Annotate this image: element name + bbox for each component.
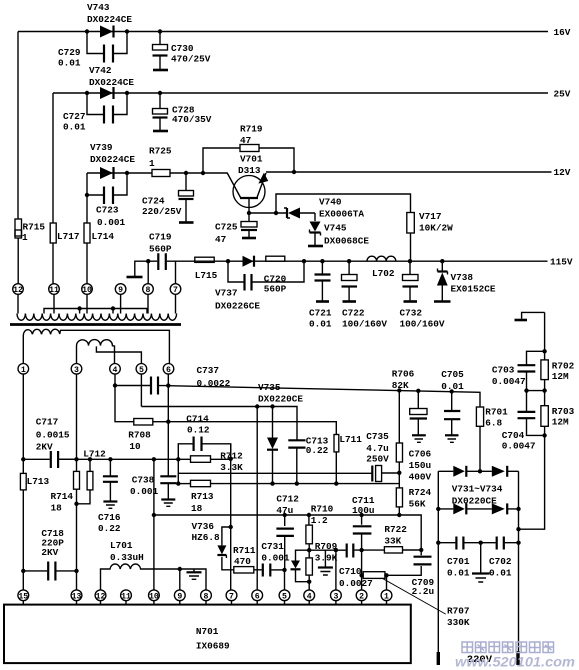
resistor R714: [51, 471, 80, 513]
wire main feed J: [168, 386, 480, 407]
resistor V717 10K/2W: [276, 194, 453, 261]
wire pin7 riser: [230, 444, 232, 590]
diode V743 DX0224CE: [87, 2, 132, 38]
svg-text:R702: R702: [552, 361, 575, 372]
capacitor C730: [153, 32, 211, 71]
diode V731: [453, 466, 466, 477]
ground on wire I: [318, 550, 333, 575]
svg-text:3: 3: [74, 366, 79, 375]
node bridge-out: [478, 469, 482, 473]
resistor R711: [231, 545, 262, 573]
wire pin1-IC riser: [386, 575, 388, 590]
inductor L715: [195, 257, 218, 281]
svg-text:C703: C703: [492, 365, 515, 376]
svg-text:470/25V: 470/25V: [171, 54, 211, 65]
svg-text:C737: C737: [197, 365, 220, 376]
svg-text:C712: C712: [276, 494, 299, 505]
transistor V701 D313: [227, 154, 269, 214]
zener V745 DX0068CE: [308, 213, 369, 247]
resistor R725: [149, 146, 172, 177]
svg-text:0.01: 0.01: [309, 319, 332, 330]
svg-text:1: 1: [22, 232, 28, 243]
resistor R715: [15, 219, 45, 284]
svg-text:C717: C717: [36, 417, 59, 428]
svg-text:L711: L711: [339, 434, 362, 445]
wire F to R712 node: [152, 457, 156, 461]
node C720-right: [302, 259, 306, 263]
capacitor C704: [502, 391, 547, 452]
wire left rail x18: [17, 32, 19, 220]
svg-text:R724: R724: [409, 487, 432, 498]
svg-text:C738: C738: [132, 475, 155, 486]
resistor R712: [191, 451, 244, 474]
diode V737 DX0226CE: [215, 256, 260, 312]
node C732 V717: [408, 259, 412, 263]
capacitor C732: [400, 261, 445, 329]
svg-text:R715: R715: [23, 222, 46, 233]
svg-text:9: 9: [177, 592, 182, 601]
inductor L701: [101, 540, 207, 590]
node C711-bottom: [359, 548, 363, 552]
svg-text:R706: R706: [392, 369, 415, 380]
IC N701 IX0689: [4, 605, 411, 664]
node C735-right: [397, 471, 401, 475]
svg-text:0.0015: 0.0015: [36, 430, 70, 441]
wires pins to primary winding: [18, 294, 176, 313]
node pin6-R708: [166, 420, 170, 424]
svg-text:100/160V: 100/160V: [400, 319, 445, 330]
capacitor C719: [148, 232, 175, 271]
svg-text:47: 47: [240, 135, 251, 146]
node V738: [440, 259, 444, 263]
node junction V739-right: [125, 171, 129, 175]
svg-text:R713: R713: [191, 491, 214, 502]
svg-text:DX0226CE: DX0226CE: [215, 301, 260, 312]
svg-text:330K: 330K: [447, 617, 470, 628]
svg-text:1.2: 1.2: [311, 515, 328, 526]
wire I row: [309, 549, 421, 551]
svg-text:560P: 560P: [149, 244, 172, 255]
wire pin3-IC riser: [335, 550, 337, 590]
node junction 25V-right: [125, 91, 129, 95]
svg-text:C710: C710: [339, 566, 362, 577]
capacitor C716: [98, 457, 121, 534]
IC pin 15: [18, 590, 29, 605]
node R702-top: [542, 349, 546, 353]
svg-text:12M: 12M: [552, 417, 569, 428]
wire bridge top row: [438, 470, 518, 472]
resistor R708: [128, 419, 168, 453]
svg-text:470/35V: 470/35V: [172, 114, 212, 125]
ground hot-bar left of C719: [127, 261, 149, 277]
capacitor C728: [153, 93, 212, 131]
IC pin 2: [356, 590, 367, 605]
svg-text:C725: C725: [215, 222, 238, 233]
wire right rail: [519, 312, 545, 529]
svg-text:C702: C702: [489, 556, 512, 567]
svg-text:56K: 56K: [409, 499, 426, 510]
IC pin 4: [304, 590, 315, 605]
svg-text:R708: R708: [128, 430, 151, 441]
capacitor C717: [23, 417, 76, 469]
link box after V737: [266, 256, 285, 261]
node C721: [320, 259, 324, 263]
svg-text:C719: C719: [149, 232, 172, 243]
svg-text:4.7u: 4.7u: [366, 443, 389, 454]
pin 7: [170, 284, 181, 295]
IC pin 10: [149, 590, 160, 605]
svg-text:100/160V: 100/160V: [342, 319, 387, 330]
svg-text:1: 1: [149, 158, 155, 169]
svg-text:www.520101.com: www.520101.com: [455, 654, 575, 670]
node R712-right: [229, 457, 233, 461]
svg-text:C704: C704: [502, 430, 525, 441]
capacitor C735: [366, 431, 399, 482]
svg-text:0.0047: 0.0047: [502, 441, 536, 452]
wire pin9 stub: [179, 569, 181, 590]
wire 25V rail: [53, 89, 571, 100]
capacitor C705: [441, 369, 464, 442]
svg-text:2.2u: 2.2u: [412, 586, 435, 597]
svg-text:8: 8: [146, 286, 151, 295]
node divider mid: [524, 388, 547, 392]
diode V735: [267, 407, 278, 484]
primary tap jumper: [44, 306, 147, 313]
resistor R702: [541, 360, 575, 382]
pin 5: [136, 364, 147, 376]
node emitter-rail: [292, 170, 296, 174]
resistor R713: [176, 480, 214, 514]
zener V738 EX0152CE: [434, 261, 496, 301]
inductor L712: [77, 449, 107, 504]
node C737-left: [113, 383, 117, 387]
svg-text:16V: 16V: [554, 27, 571, 38]
wire pin1 rail: [22, 374, 24, 590]
svg-text:L712: L712: [83, 449, 106, 460]
capacitor C712: [276, 494, 299, 570]
svg-text:IX0689: IX0689: [196, 641, 230, 652]
capacitor C702: [481, 537, 519, 579]
svg-text:0.001: 0.001: [261, 553, 290, 564]
leader to R707 label: [383, 579, 470, 628]
wire B to L711: [168, 422, 336, 435]
wire bridge right leg: [516, 471, 520, 665]
svg-text:10: 10: [149, 592, 159, 601]
svg-text:115V: 115V: [550, 257, 573, 268]
svg-text:L715: L715: [195, 270, 218, 281]
node C737-right: [166, 383, 170, 387]
inductor L702: [367, 256, 396, 279]
svg-text:C714: C714: [186, 414, 209, 425]
svg-text:150u: 150u: [409, 460, 432, 471]
node C722: [347, 259, 351, 263]
svg-text:2KV: 2KV: [36, 442, 53, 453]
svg-text:R710: R710: [311, 504, 334, 515]
svg-text:12: 12: [96, 592, 106, 601]
svg-text:0.001: 0.001: [97, 217, 126, 228]
svg-text:R701: R701: [485, 407, 508, 418]
node wireF-pin1: [21, 457, 25, 461]
wire pin2-IC riser: [361, 550, 363, 590]
inductor L717: [50, 223, 79, 284]
capacitor C722: [342, 261, 388, 329]
svg-text:560P: 560P: [264, 284, 287, 295]
svg-text:V740: V740: [319, 197, 342, 208]
diode V742 DX0224CE: [89, 65, 134, 99]
resistor R710: [306, 504, 334, 551]
node C724-top: [184, 171, 188, 175]
node wireF-pin3: [74, 457, 78, 461]
pin 3: [71, 364, 82, 376]
svg-text:C727: C727: [63, 111, 86, 122]
svg-text:V738: V738: [451, 272, 474, 283]
node C728: [158, 91, 162, 95]
svg-text:V701: V701: [240, 154, 263, 165]
node pin3-IC: [334, 548, 338, 552]
wire bridge left leg: [436, 471, 440, 665]
wire V739 row: [87, 172, 152, 174]
svg-text:250V: 250V: [366, 454, 389, 465]
IC pin 11: [121, 590, 132, 605]
wire 12V rail right: [266, 167, 571, 178]
capacitor C731: [261, 541, 290, 577]
svg-text:9: 9: [118, 286, 123, 295]
capacitor C714: [178, 414, 230, 460]
svg-text:10: 10: [82, 286, 92, 295]
IC pin 1: [381, 590, 392, 605]
node V717-branch: [274, 211, 278, 215]
pin 4: [110, 364, 121, 376]
svg-text:C729: C729: [58, 47, 81, 58]
diode V733: [453, 503, 466, 514]
svg-text:25V: 25V: [554, 89, 571, 100]
IC pin 9: [174, 590, 185, 605]
wire D row: [152, 513, 422, 550]
capacitor C713: [288, 436, 328, 484]
resistor R701: [476, 407, 508, 472]
pin 10: [82, 284, 93, 295]
svg-text:DX0220CE: DX0220CE: [452, 496, 497, 507]
node C719-left: [146, 259, 150, 263]
pin 12: [13, 284, 24, 295]
svg-text:7: 7: [173, 286, 178, 295]
svg-text:R725: R725: [149, 146, 172, 157]
svg-text:82K: 82K: [392, 380, 409, 391]
pin 8: [143, 284, 154, 295]
capacitor C724: [142, 173, 194, 223]
IC pin 5: [279, 590, 290, 605]
IC pin 7: [226, 590, 237, 605]
wire pin6 down: [167, 374, 169, 422]
capacitor C709: [387, 550, 435, 597]
ground near pin9: [187, 569, 202, 579]
svg-text:5: 5: [139, 366, 144, 375]
node R710-R709: [307, 548, 311, 552]
svg-text:100u: 100u: [352, 505, 375, 516]
resistor R706: [392, 369, 415, 473]
svg-text:0.01: 0.01: [63, 122, 86, 133]
wire rect-row A: [141, 382, 303, 440]
svg-text:18: 18: [51, 503, 63, 514]
svg-text:V745: V745: [324, 223, 347, 234]
svg-text:0.33uH: 0.33uH: [110, 552, 144, 563]
pin 11: [49, 284, 60, 295]
svg-text:C730: C730: [171, 43, 194, 54]
svg-text:L701: L701: [110, 540, 133, 551]
svg-text:3: 3: [333, 592, 338, 601]
node R722-right: [419, 548, 423, 552]
svg-text:0.12: 0.12: [187, 425, 210, 436]
wire pin3 rail: [76, 374, 78, 590]
svg-text:47: 47: [215, 234, 226, 245]
svg-text:0.0047: 0.0047: [492, 376, 526, 387]
resistor R719: [203, 124, 294, 174]
svg-text:2KV: 2KV: [41, 547, 58, 558]
pin 6: [163, 364, 174, 376]
wire left rail x53: [52, 93, 54, 223]
svg-text:C735: C735: [366, 431, 389, 442]
wire 12V row left: [170, 172, 227, 174]
svg-text:6: 6: [255, 592, 260, 601]
node C730: [158, 29, 162, 33]
svg-text:V736: V736: [192, 521, 215, 532]
svg-text:R722: R722: [384, 524, 407, 535]
svg-text:11: 11: [49, 286, 59, 295]
svg-text:6.8: 6.8: [485, 418, 502, 429]
diode V740 EX0006TA: [284, 197, 364, 220]
svg-text:15: 15: [18, 592, 28, 601]
capacitor C729: [58, 32, 127, 69]
capacitor C718: [21, 528, 79, 581]
svg-text:R719: R719: [240, 124, 263, 135]
svg-text:0.01: 0.01: [489, 568, 512, 579]
svg-text:DX0220CE: DX0220CE: [258, 394, 303, 405]
svg-text:47u: 47u: [276, 505, 293, 516]
pin 9: [115, 284, 126, 295]
diode V739 DX0224CE: [90, 142, 135, 179]
wire F row: [58, 458, 231, 460]
svg-text:C723: C723: [96, 205, 119, 216]
wire bridge mid row: [436, 507, 521, 511]
resistor R707: [359, 572, 388, 579]
svg-text:L702: L702: [372, 268, 395, 279]
svg-text:C706: C706: [409, 449, 432, 460]
capacitor C701: [438, 537, 480, 579]
wire 16V rail: [18, 27, 571, 38]
node mains-ground: [479, 541, 483, 545]
resistor R703: [541, 406, 575, 428]
svg-text:R707: R707: [447, 606, 470, 617]
node R719-left: [201, 171, 205, 175]
wire pin6-IC riser: [256, 407, 258, 590]
node junction 16V-left: [85, 29, 89, 33]
node junction 25V-left: [85, 91, 89, 95]
svg-text:DX0224CE: DX0224CE: [87, 14, 132, 25]
capacitor C725: [215, 213, 257, 245]
svg-text:4: 4: [307, 592, 312, 601]
svg-text:V737: V737: [215, 288, 238, 299]
capacitor C703: [492, 351, 545, 390]
svg-text:C705: C705: [441, 369, 464, 380]
svg-text:400V: 400V: [409, 472, 432, 483]
capacitor C706: [409, 391, 432, 483]
primary winding: [17, 314, 177, 321]
svg-text:13: 13: [72, 592, 82, 601]
IC pin 8: [201, 590, 212, 605]
wire pin4 down: [115, 374, 134, 422]
node wireG-pin5: [282, 568, 286, 572]
node pin9-gnd: [178, 567, 182, 571]
svg-text:N701: N701: [196, 626, 219, 637]
svg-text:1: 1: [21, 366, 26, 375]
svg-text:10: 10: [129, 441, 141, 452]
zener V736 HZ6.8: [192, 521, 233, 570]
node R712-left: [176, 457, 180, 461]
wire pin5-IC stub: [284, 570, 286, 590]
svg-text:8: 8: [204, 592, 209, 601]
svg-text:0.01: 0.01: [447, 568, 470, 579]
svg-text:12M: 12M: [552, 371, 569, 382]
capacitor C723: [87, 173, 127, 228]
svg-text:12V: 12V: [554, 167, 571, 178]
svg-text:18: 18: [191, 503, 203, 514]
svg-text:5: 5: [282, 592, 287, 601]
svg-text:C716: C716: [98, 512, 121, 523]
svg-text:0.22: 0.22: [98, 523, 121, 534]
svg-text:0.01: 0.01: [58, 58, 81, 69]
svg-text:DX0068CE: DX0068CE: [324, 236, 369, 247]
diode V734: [452, 484, 507, 515]
svg-text:11: 11: [121, 592, 131, 601]
svg-text:EX0006TA: EX0006TA: [319, 209, 364, 220]
svg-text:C732: C732: [400, 308, 423, 319]
transformer core: [10, 323, 181, 326]
svg-text:33K: 33K: [384, 535, 401, 546]
resistor R724: [396, 473, 431, 515]
wire pin7 stub: [175, 261, 177, 284]
capacitor C711: [352, 495, 375, 550]
wire V740 row: [249, 212, 315, 214]
capacitor C710: [339, 544, 373, 590]
chassis stub top right: [515, 312, 545, 320]
diode across R709: [291, 550, 312, 584]
svg-text:470: 470: [234, 556, 251, 567]
svg-text:V739: V739: [90, 142, 113, 153]
svg-text:R711: R711: [233, 545, 256, 556]
capacitor C737: [115, 365, 231, 395]
svg-text:C724: C724: [142, 196, 165, 207]
svg-text:V717: V717: [419, 211, 442, 222]
svg-text:10K/2W: 10K/2W: [419, 223, 453, 234]
svg-text:0.22: 0.22: [306, 445, 329, 456]
svg-text:R714: R714: [51, 491, 74, 502]
wire 115V row: [176, 257, 573, 268]
wire x178 link: [177, 459, 179, 483]
IC pin 13: [71, 590, 82, 605]
capacitor C727: [63, 93, 127, 133]
svg-text:V731~V734: V731~V734: [452, 484, 503, 495]
svg-text:4: 4: [113, 366, 118, 375]
wire pin8 stub: [147, 261, 149, 284]
svg-text:D313: D313: [238, 165, 261, 176]
svg-text:DX0224CE: DX0224CE: [89, 77, 134, 88]
node junction 16V-right: [125, 29, 129, 33]
secondary B centre tap: [96, 346, 141, 363]
svg-text:6: 6: [166, 366, 171, 375]
svg-text:0.01: 0.01: [441, 381, 464, 392]
svg-text:7: 7: [229, 592, 234, 601]
IC pin 3: [331, 590, 342, 605]
